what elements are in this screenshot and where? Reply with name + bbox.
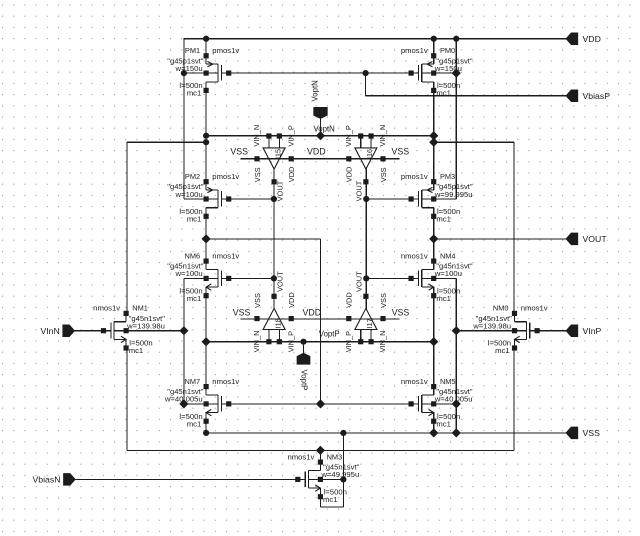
svg-text:w=139.98u: w=139.98u xyxy=(126,322,165,331)
svg-text:mc1: mc1 xyxy=(187,89,202,98)
svg-text:NM7: NM7 xyxy=(184,377,200,386)
svg-text:VDD: VDD xyxy=(583,34,601,44)
svg-text:mc1: mc1 xyxy=(129,346,144,355)
svg-text:VInN: VInN xyxy=(40,326,59,336)
svg-text:VDD: VDD xyxy=(303,308,322,318)
svg-text:VSS: VSS xyxy=(583,428,601,438)
svg-text:w=100u: w=100u xyxy=(175,190,203,199)
svg-text:VIN_N: VIN_N xyxy=(252,125,261,147)
svg-text:VSS: VSS xyxy=(253,293,262,308)
svg-text:mc1: mc1 xyxy=(436,294,451,303)
svg-text:w=99.995u: w=99.995u xyxy=(434,190,473,199)
svg-text:NM5: NM5 xyxy=(440,377,456,386)
svg-text:PM1: PM1 xyxy=(185,46,200,55)
svg-text:w=100u: w=100u xyxy=(175,269,203,278)
svg-text:nmos1v: nmos1v xyxy=(212,251,239,260)
svg-text:nmos1v: nmos1v xyxy=(401,377,428,386)
svg-text:I17: I17 xyxy=(365,318,374,328)
svg-text:VOUT: VOUT xyxy=(276,180,285,201)
svg-text:VoptN: VoptN xyxy=(314,125,335,134)
svg-text:PM2: PM2 xyxy=(185,172,200,181)
svg-text:VDD: VDD xyxy=(287,167,296,183)
svg-text:VSS: VSS xyxy=(392,147,410,157)
svg-text:VIN_N: VIN_N xyxy=(252,331,261,353)
svg-text:NM1: NM1 xyxy=(132,304,148,313)
svg-text:PM0: PM0 xyxy=(440,46,455,55)
svg-text:mc1: mc1 xyxy=(495,346,510,355)
svg-text:VIN_P: VIN_P xyxy=(286,125,295,146)
svg-text:I16: I16 xyxy=(365,149,374,159)
svg-text:NM0: NM0 xyxy=(493,304,509,313)
svg-text:NM3: NM3 xyxy=(327,452,343,461)
svg-text:VoptN: VoptN xyxy=(311,80,320,101)
svg-text:mc1: mc1 xyxy=(323,495,338,504)
svg-text:NM4: NM4 xyxy=(440,251,456,260)
svg-text:mc1: mc1 xyxy=(187,419,202,428)
svg-text:VOUT: VOUT xyxy=(355,271,364,292)
svg-text:VDD: VDD xyxy=(345,292,354,308)
svg-text:mc1: mc1 xyxy=(187,294,202,303)
svg-text:VOUT: VOUT xyxy=(355,180,364,201)
svg-text:w=40.005u: w=40.005u xyxy=(434,395,473,404)
svg-text:VIN_P: VIN_P xyxy=(286,331,295,352)
svg-text:nmos1v: nmos1v xyxy=(521,304,548,313)
svg-text:VIN_N: VIN_N xyxy=(378,331,387,353)
svg-text:pmos1v: pmos1v xyxy=(212,172,239,181)
svg-text:VbiasP: VbiasP xyxy=(583,91,611,101)
svg-text:I15: I15 xyxy=(273,149,282,159)
svg-text:VoptP: VoptP xyxy=(300,370,309,391)
svg-text:nmos1v: nmos1v xyxy=(287,452,314,461)
svg-text:VSS: VSS xyxy=(253,167,262,182)
svg-text:VDD: VDD xyxy=(345,167,354,183)
svg-text:w=139.98u: w=139.98u xyxy=(472,322,511,331)
svg-text:nmos1v: nmos1v xyxy=(401,251,428,260)
svg-text:VSS: VSS xyxy=(230,147,248,157)
svg-text:NM6: NM6 xyxy=(184,251,200,260)
svg-text:VIN_P: VIN_P xyxy=(344,125,353,146)
svg-text:VSS: VSS xyxy=(379,167,388,182)
svg-text:VIN_P: VIN_P xyxy=(344,331,353,352)
svg-text:VOUT: VOUT xyxy=(276,271,285,292)
svg-text:VSS: VSS xyxy=(233,308,251,318)
svg-text:pmos1v: pmos1v xyxy=(401,46,428,55)
svg-text:VInP: VInP xyxy=(583,326,602,336)
svg-text:VIN_N: VIN_N xyxy=(378,125,387,147)
svg-text:VbiasN: VbiasN xyxy=(32,475,60,485)
svg-text:VSS: VSS xyxy=(392,308,410,318)
svg-text:VDD: VDD xyxy=(287,292,296,308)
svg-text:PM3: PM3 xyxy=(440,172,455,181)
svg-text:VDD: VDD xyxy=(307,147,326,157)
svg-text:I18: I18 xyxy=(273,318,282,328)
svg-text:mc1: mc1 xyxy=(436,89,451,98)
svg-text:nmos1v: nmos1v xyxy=(212,377,239,386)
svg-text:VOUT: VOUT xyxy=(583,234,608,244)
svg-text:VSS: VSS xyxy=(379,293,388,308)
svg-text:mc1: mc1 xyxy=(436,214,451,223)
svg-text:mc1: mc1 xyxy=(436,419,451,428)
svg-text:nmos1v: nmos1v xyxy=(93,304,120,313)
svg-text:w=49.995u: w=49.995u xyxy=(320,470,359,479)
svg-text:mc1: mc1 xyxy=(187,214,202,223)
svg-text:w=150u: w=150u xyxy=(175,64,203,73)
svg-text:pmos1v: pmos1v xyxy=(212,46,239,55)
svg-text:pmos1v: pmos1v xyxy=(401,172,428,181)
svg-text:w=100u: w=100u xyxy=(434,269,462,278)
svg-text:VoptP: VoptP xyxy=(319,329,340,338)
